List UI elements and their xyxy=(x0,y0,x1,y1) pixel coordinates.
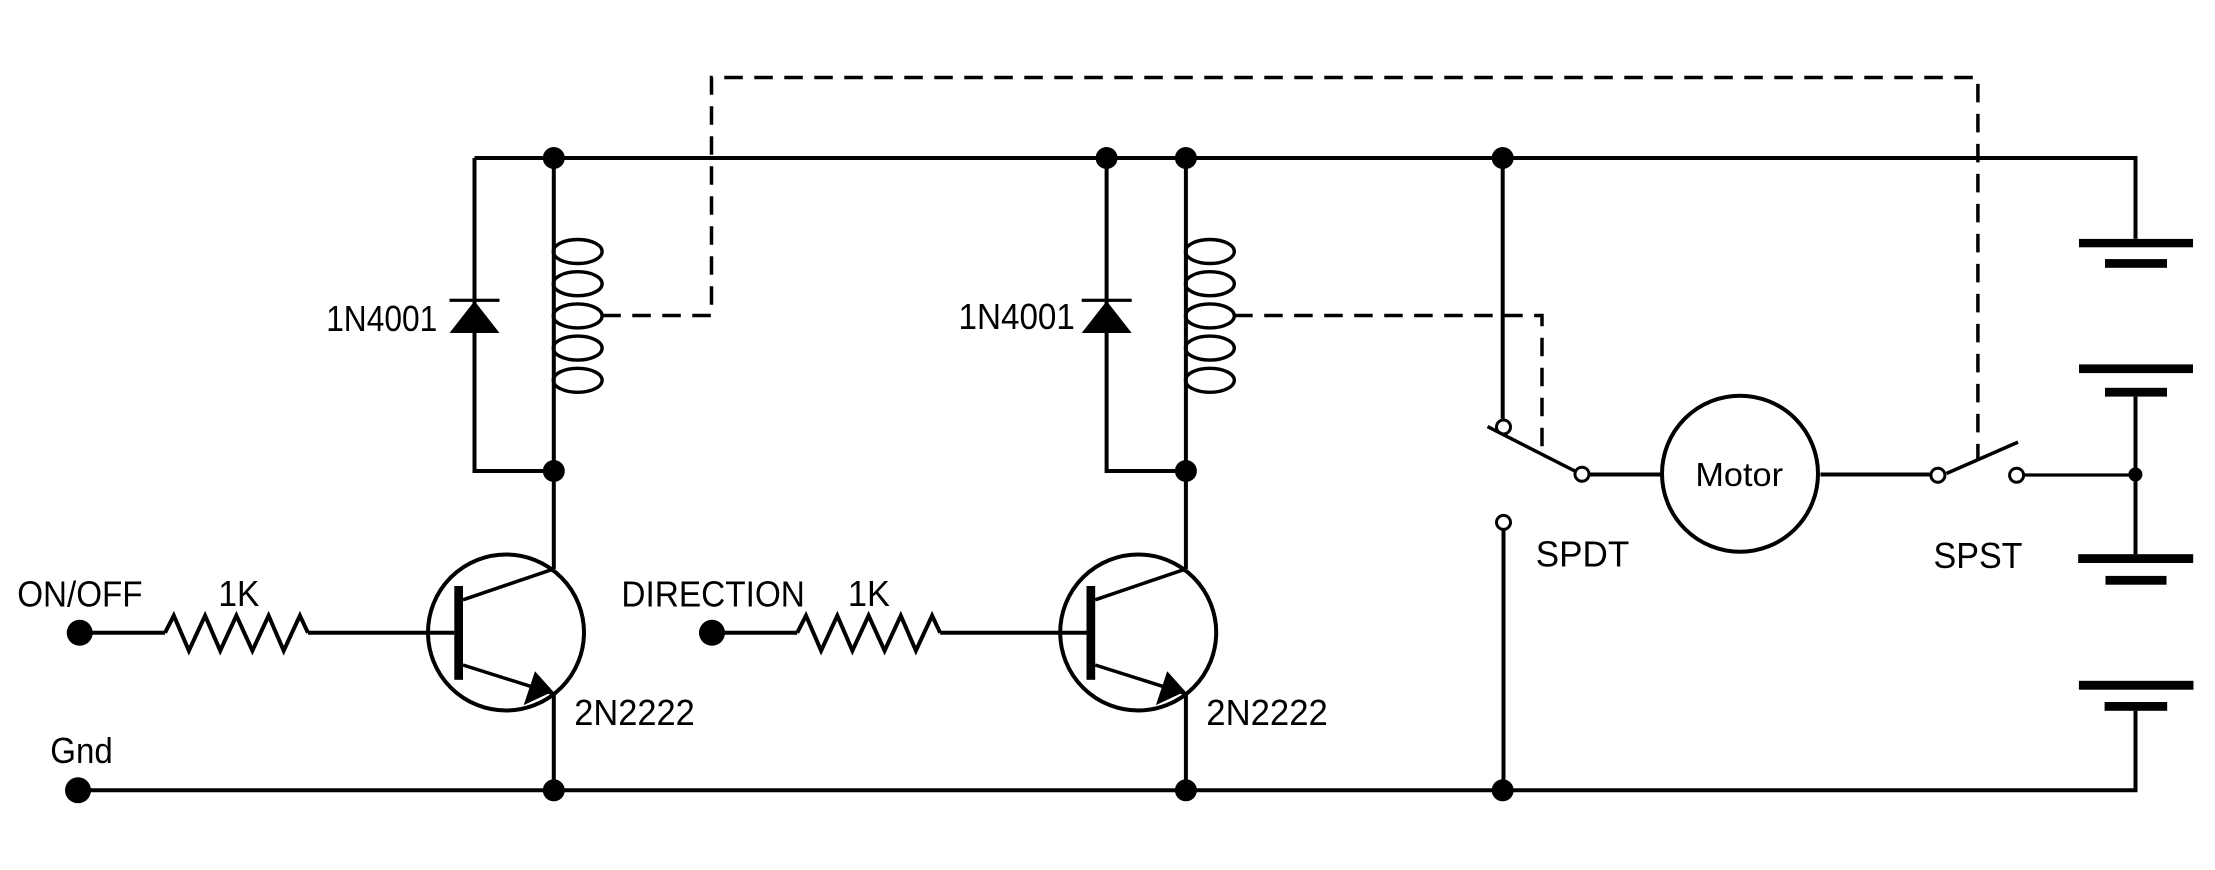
junction top rail at D2 xyxy=(1096,147,1118,169)
wire battery mid section xyxy=(2134,397,2138,555)
wire V+ top rail to battery positive xyxy=(475,158,2136,239)
wire Q2 collector xyxy=(1184,471,1188,569)
wire Q1 emitter to ground xyxy=(552,694,556,791)
wire relay coil K1 branch xyxy=(552,158,556,471)
svg-text:ON/OFF: ON/OFF xyxy=(17,574,142,615)
junction top rail at K1 xyxy=(543,147,565,169)
svg-text:SPDT: SPDT xyxy=(1536,534,1630,575)
motor M1 xyxy=(1662,396,1818,552)
wire SPST throw to battery tap xyxy=(2025,473,2136,476)
switch S2 SPST xyxy=(1931,442,2024,482)
svg-text:1N4001: 1N4001 xyxy=(959,296,1075,337)
wire ON/OFF input to R1 xyxy=(80,631,165,635)
wire R1 to Q1 base xyxy=(308,631,454,635)
junction ground at Q1 emitter xyxy=(543,779,565,801)
battery B1 cell 1 xyxy=(2079,239,2193,268)
wire SPDT lower throw to ground xyxy=(1502,531,1506,791)
diode D1 1N4001 xyxy=(450,299,500,333)
relay coil K2 xyxy=(1186,240,1235,393)
dashed relay K2 actuator linkage to SPDT xyxy=(1234,316,1542,455)
svg-text:1K: 1K xyxy=(218,573,259,614)
relay coil K1 xyxy=(553,240,602,393)
wire diode D1 branch xyxy=(475,158,554,471)
diode D2 1N4001 xyxy=(1082,299,1132,333)
junction Q1 collector node xyxy=(543,460,565,482)
svg-text:Motor: Motor xyxy=(1695,456,1783,493)
svg-text:2N2222: 2N2222 xyxy=(1206,692,1328,733)
svg-text:1N4001: 1N4001 xyxy=(326,298,437,339)
svg-text:DIRECTION: DIRECTION xyxy=(621,574,805,615)
battery B1 cell 4 xyxy=(2079,681,2194,711)
wire DIRECTION input to R2 xyxy=(712,631,797,635)
junction ground at Q2 emitter xyxy=(1175,779,1197,801)
wire motor to SPST pole xyxy=(1821,473,1930,477)
wire R2 to Q2 base xyxy=(940,631,1086,635)
junction Q2 collector node xyxy=(1175,460,1197,482)
wire SPDT pole to motor xyxy=(1590,473,1661,477)
terminal ON/OFF xyxy=(67,620,93,646)
dashed relay K1 actuator linkage to SPST xyxy=(602,78,1978,460)
wire diode D2 branch xyxy=(1107,158,1186,471)
junction battery tap at SPST xyxy=(2128,468,2142,482)
junction top rail at K2 xyxy=(1175,147,1197,169)
transistor Q2 2N2222 xyxy=(1060,555,1216,711)
battery B1 cell 3 xyxy=(2078,554,2193,585)
battery B1 cell 2 xyxy=(2079,364,2193,396)
wire Q1 collector xyxy=(552,471,556,569)
svg-text:SPST: SPST xyxy=(1934,535,2023,576)
resistor R1 xyxy=(165,616,308,651)
svg-text:Gnd: Gnd xyxy=(50,730,113,771)
wire SPDT upper throw from V+ xyxy=(1501,158,1505,419)
wire relay coil K2 branch xyxy=(1184,158,1188,471)
wire ground rail xyxy=(78,711,2136,791)
svg-text:2N2222: 2N2222 xyxy=(574,692,695,733)
junction top rail at SPDT xyxy=(1492,147,1514,169)
terminal Gnd xyxy=(65,777,91,803)
transistor Q1 2N2222 xyxy=(428,555,584,711)
terminal DIRECTION xyxy=(699,620,725,646)
junction ground at SPDT throw xyxy=(1492,779,1514,801)
switch S1 SPDT xyxy=(1488,420,1590,529)
svg-text:1K: 1K xyxy=(848,573,890,614)
resistor R2 xyxy=(797,616,940,651)
wire Q2 emitter to ground xyxy=(1184,694,1188,791)
